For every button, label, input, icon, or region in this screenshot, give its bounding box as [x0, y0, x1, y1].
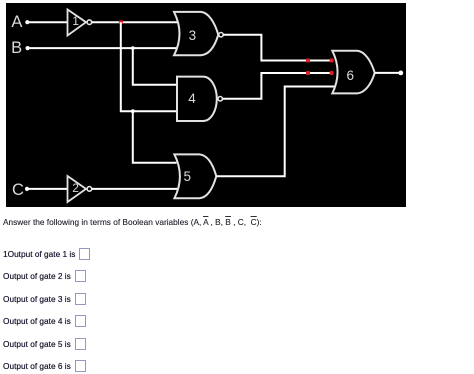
wire gate 4 output to gate 6 middle input: [222, 73, 332, 99]
node junction red R5: [330, 71, 334, 75]
input A label: [11, 14, 22, 31]
question prompt text: [3, 217, 262, 227]
gate 4 number label: [188, 92, 196, 106]
gate 6 number label: [347, 69, 355, 83]
wire inverter 2 output to gate 5 bottom input: [92, 188, 178, 190]
wire J2 down to gate 5 top input: [133, 111, 177, 163]
OR gate U6 (gate 6, 3-input): [332, 51, 374, 94]
node junction red R2: [306, 59, 310, 63]
wire gate 3 output to gate 6 top input: [223, 35, 333, 61]
question line 5: [3, 338, 86, 350]
NOR gate U3 (gate 3): [174, 12, 223, 55]
gate 1 number label: [72, 15, 79, 27]
wire J3 down to gate 4 top input: [133, 48, 178, 85]
wire J1 down to gate 4 bottom input row: [121, 22, 178, 111]
gate 3 number label: [189, 29, 197, 43]
input B label: [11, 40, 22, 57]
wire gate 6 output: [375, 72, 399, 74]
node junction red R3: [330, 59, 334, 63]
node B terminal dot: [26, 46, 30, 50]
node output terminal dot: [398, 71, 403, 76]
node A terminal dot: [25, 20, 29, 24]
question line 1: [3, 248, 90, 260]
inverter U1 (gate 1): [68, 10, 92, 36]
wire C to inverter 2: [27, 188, 68, 190]
question line 2: [3, 270, 86, 282]
node junction red R4: [306, 71, 310, 75]
node C terminal dot: [25, 187, 29, 191]
gate 5 number label: [184, 170, 192, 184]
NAND gate U4 (gate 4): [177, 77, 222, 121]
question line 4: [3, 315, 86, 327]
inverter U2 (gate 2): [68, 176, 92, 202]
gate 2 number label: [72, 182, 79, 194]
wire A to inverter 1: [27, 21, 68, 23]
node junction J3 on B wire: [131, 46, 135, 50]
input C label: [12, 182, 24, 199]
question line 3: [3, 293, 86, 305]
circuit background panel: [6, 3, 406, 207]
node junction J2 on A' wire (to gate 5): [131, 109, 135, 113]
wire gate 5 output to gate 6 bottom input: [216, 87, 334, 177]
wire B to gate 3 bottom input: [28, 47, 179, 49]
node junction J1 (red) on A' wire: [119, 20, 123, 24]
OR gate U5 (gate 5): [174, 154, 216, 198]
wire inverter 1 output to gate 3 top input: [92, 21, 180, 23]
question line 6: [3, 360, 86, 372]
